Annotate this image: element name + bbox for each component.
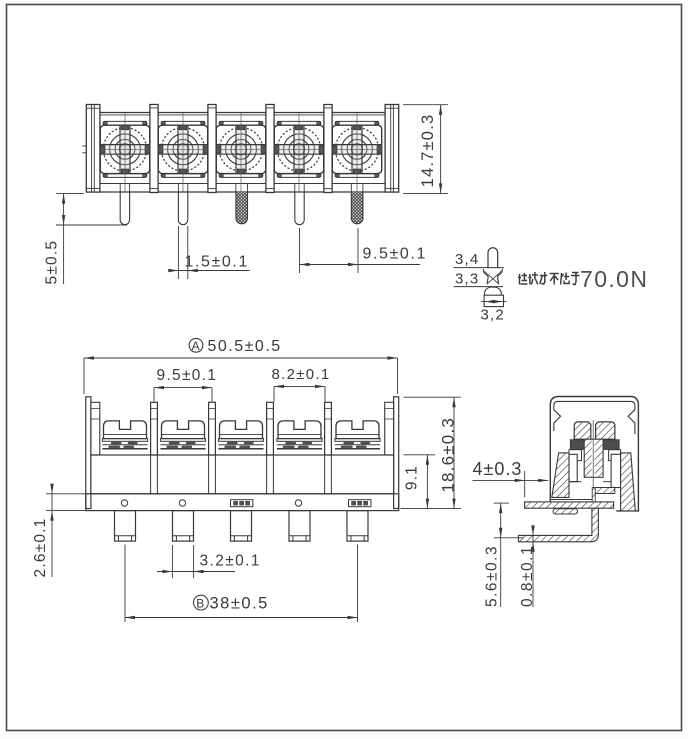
svg-text:3,4: 3,4 xyxy=(455,251,479,268)
front view clamp plates 1 xyxy=(102,439,147,449)
front view clamp plates 2 xyxy=(160,439,205,449)
front view solder pin 1 xyxy=(115,511,136,541)
front view barrier wall 2 xyxy=(209,402,216,455)
svg-text:5±0.5: 5±0.5 xyxy=(44,240,61,285)
svg-text:9.1: 9.1 xyxy=(404,465,421,490)
top view terminal cell 3 square xyxy=(216,125,265,173)
front view skirt slot cell3 xyxy=(231,500,253,507)
side view clamp right wall xyxy=(609,450,621,488)
dimension 1.5±0.1 pin width xyxy=(168,226,250,279)
side view screw axis line xyxy=(592,420,594,510)
front view skirt hole cell1 xyxy=(121,500,127,506)
side view bent pin lower section (hatched) xyxy=(518,508,598,542)
top view cell 1 screw circles xyxy=(103,128,146,171)
side view left plastic wall (hatched) xyxy=(552,453,569,498)
top view cell 4 bottom strip xyxy=(277,174,321,178)
top view cell 1 center lines xyxy=(100,113,149,193)
top view cell 1 cross slot xyxy=(100,125,149,173)
dimension 5±0.5 pin length xyxy=(44,194,128,285)
front view barrier wall 4 xyxy=(325,402,332,455)
front view solder pin 3 xyxy=(231,511,252,541)
top view plain pin 4 xyxy=(295,192,304,225)
front view screw head 1 xyxy=(104,421,147,439)
top view cell 3 cross slot xyxy=(216,125,265,173)
crimp pin bulge xyxy=(484,287,501,295)
top view cell 4 cross slot xyxy=(274,125,323,173)
top view terminal cell 1 square xyxy=(100,125,149,173)
top view left end plate xyxy=(82,105,100,193)
front view skirt hole cell4 xyxy=(295,500,301,506)
side view knurled nut (dark) xyxy=(570,440,619,450)
dimension 14.7±0.3 body depth xyxy=(403,105,448,194)
top view terminal cell 5 square xyxy=(332,125,381,173)
svg-text:18.6±0.3: 18.6±0.3 xyxy=(439,417,458,493)
top view cell 5 top strip xyxy=(335,121,379,125)
crimp pin barrel with 3,2 width arrows xyxy=(481,295,507,306)
dimension A 50.5±0.5 overall width xyxy=(84,338,398,394)
side view right plastic wall (hatched) xyxy=(621,453,636,511)
svg-text:8.2±0.1: 8.2±0.1 xyxy=(272,366,331,383)
top view cell 4 screw circles xyxy=(277,128,320,171)
side view upper solder tab (hatched) xyxy=(525,502,614,508)
label 3,4 with leader xyxy=(454,251,505,268)
top view threaded pin 5 xyxy=(351,192,363,224)
side view screw head section (hatched) xyxy=(574,422,615,439)
dimension 4±0.3 tab offset xyxy=(473,459,549,497)
front view skirt hole cell2 xyxy=(179,500,185,506)
dimension 18.6±0.3 overall height xyxy=(401,397,462,508)
top view cell 5 bottom strip xyxy=(335,174,379,178)
svg-text:3.2±0.1: 3.2±0.1 xyxy=(200,553,261,570)
front view screw head 3 xyxy=(220,421,263,439)
dimension B 38±0.5 pin span xyxy=(125,545,358,623)
dimension 9.5±0.1 pin pitch xyxy=(300,228,427,273)
top view cell 5 cross slot xyxy=(332,125,381,173)
top view terminal cell 4 square xyxy=(274,125,323,173)
side view screw shaft (hatched) xyxy=(584,439,603,477)
top view cell 2 top strip xyxy=(161,121,205,125)
front view left end wall xyxy=(86,397,100,509)
front view body block xyxy=(86,455,399,511)
svg-text:2.6±0.1: 2.6±0.1 xyxy=(32,517,49,577)
side view left wall foot (hatched) xyxy=(553,509,578,514)
svg-text:9.5±0.1: 9.5±0.1 xyxy=(157,367,218,384)
top view cell 3 center lines xyxy=(216,113,265,193)
top view right end plate xyxy=(385,105,399,193)
svg-text:B: B xyxy=(196,596,205,610)
svg-text:38±0.5: 38±0.5 xyxy=(210,595,269,613)
front view solder pin 5 xyxy=(347,511,368,541)
crimp pin detail shaft xyxy=(488,248,498,269)
crimp pin funnel section xyxy=(483,269,502,284)
top view cell 2 cross slot xyxy=(158,125,207,173)
svg-text:70.0N: 70.0N xyxy=(580,266,648,292)
top view cell 3 bottom strip xyxy=(219,174,263,178)
label 3,3 with leader xyxy=(454,271,504,288)
front view skirt slot cell5 xyxy=(349,500,371,507)
dimension 8.2±0.1 opening width xyxy=(272,366,331,402)
side view clamp left wall xyxy=(569,450,582,482)
top view cell 2 screw circles xyxy=(161,128,204,171)
front view screw head 2 xyxy=(162,421,205,439)
front view right end wall xyxy=(385,397,399,509)
label 3,2 xyxy=(481,307,505,324)
svg-text:9.5±0.1: 9.5±0.1 xyxy=(363,246,427,263)
top view threaded pin 3 xyxy=(236,192,248,224)
svg-text:0.8±0.1: 0.8±0.1 xyxy=(519,545,536,607)
top view barrier wall 2 xyxy=(208,105,216,193)
front view solder pin 4 xyxy=(289,511,310,541)
svg-text:A: A xyxy=(192,339,201,353)
top view cell 2 center lines xyxy=(158,113,207,193)
front view barrier wall 1 xyxy=(151,402,158,455)
top view terminal cell 2 square xyxy=(158,125,207,173)
svg-text:3,2: 3,2 xyxy=(481,307,505,324)
svg-text:1.5±0.1: 1.5±0.1 xyxy=(185,254,249,271)
top view cell 1 bottom strip xyxy=(103,174,147,178)
top view cell 5 screw circles xyxy=(335,128,378,171)
svg-text:5.6±0.3: 5.6±0.3 xyxy=(484,545,501,607)
top view pin stubs through bottom rail xyxy=(120,184,363,193)
top view cell 3 top strip xyxy=(219,121,263,125)
front view clamp plates 3 xyxy=(218,439,263,449)
top view plain pin 1 xyxy=(120,192,129,225)
svg-text:4±0.3: 4±0.3 xyxy=(473,459,523,479)
side view housing outline xyxy=(550,397,638,511)
top view plain pin 2 xyxy=(178,192,187,225)
front view screw head 4 xyxy=(278,421,321,439)
dimension 2.6±0.1 skirt height xyxy=(32,484,112,578)
dimension 3.2±0.1 pin width xyxy=(157,545,261,578)
dimension 9.5±0.1 terminal pitch xyxy=(154,367,217,402)
svg-text:50.5±0.5: 50.5±0.5 xyxy=(208,338,282,355)
top view cell 3 screw circles xyxy=(219,128,262,171)
dimension 9.1 body height xyxy=(404,455,436,509)
note text: pull force not less than 70.0N (CJK strokes) xyxy=(518,266,648,292)
front view screw head 5 xyxy=(336,421,379,439)
top view barrier wall 4 xyxy=(324,105,332,193)
front view barrier wall 3 xyxy=(267,402,274,455)
side view clamp bottom plate (hatched) xyxy=(569,482,615,494)
top view cell 1 top strip xyxy=(103,121,147,125)
front view solder pin 2 xyxy=(173,511,194,541)
dimension 0.8±0.1 tab thickness xyxy=(519,525,536,607)
top view cell 5 center lines xyxy=(332,113,381,193)
side view pin step to clamp (hatched) xyxy=(592,488,595,502)
front view clamp plates 4 xyxy=(277,439,322,449)
dimension 5.6±0.3 tab height xyxy=(484,503,524,607)
top view cell 4 center lines xyxy=(274,113,323,193)
svg-text:3,3: 3,3 xyxy=(455,271,479,288)
top view cell 2 bottom strip xyxy=(161,174,205,178)
top view cell 4 top strip xyxy=(277,121,321,125)
top view barrier wall 1 xyxy=(150,105,158,193)
svg-text:14.7±0.3: 14.7±0.3 xyxy=(419,114,437,188)
top view body rails xyxy=(100,113,385,193)
side view housing inner contour xyxy=(554,401,635,434)
front view clamp plates 5 xyxy=(335,439,380,449)
top view barrier wall 3 xyxy=(266,105,274,193)
